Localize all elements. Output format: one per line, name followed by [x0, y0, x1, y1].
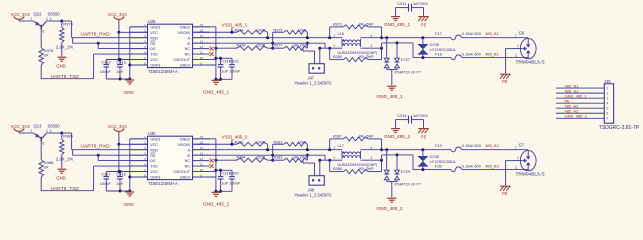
net label 485_B1 — [565, 83, 580, 88]
ground GND_485_2 (TVS) — [377, 198, 403, 211]
capacitor C318 1uF — [116, 170, 125, 191]
svg-text:GND_485_1: GND_485_1 — [384, 22, 410, 27]
svg-text:0R_DNP: 0R_DNP — [359, 23, 374, 27]
power VCC_3V3 (bot2) — [108, 124, 128, 133]
net label 485_A1 — [565, 88, 580, 93]
svg-text:GND_485_2: GND_485_2 — [384, 134, 410, 139]
net label GND_485_2 — [565, 113, 588, 118]
svg-text:VCC_3V3: VCC_3V3 — [11, 12, 31, 17]
svg-text:Header 1_2.54DIP2: Header 1_2.54DIP2 — [295, 80, 333, 85]
svg-text:2: 2 — [30, 129, 32, 133]
svg-text:VCC_3V3: VCC_3V3 — [108, 12, 128, 17]
svg-text:RXD: RXD — [150, 36, 158, 40]
ground GND_485_1 (caps) — [203, 80, 229, 94]
net label 485_B1 — [485, 51, 500, 56]
svg-text:0R_DNP: 0R_DNP — [359, 135, 374, 139]
svg-text:NC: NC — [185, 165, 191, 169]
power VCC_3V3 (top2) — [108, 12, 128, 21]
svg-text:3: 3 — [607, 97, 609, 101]
svg-text:TD501D485H-A: TD501D485H-A — [148, 69, 178, 74]
capacitor C313 1uF — [116, 58, 125, 79]
svg-text:L17: L17 — [338, 144, 344, 148]
capacitor C317 100nF — [100, 171, 112, 191]
no-connect pin 11 — [210, 52, 214, 56]
wire RXD net — [62, 133, 148, 150]
svg-text:0.16A/ 60V: 0.16A/ 60V — [462, 31, 482, 36]
svg-text:GND: GND — [124, 90, 134, 95]
svg-text:PSM712-LF-T7: PSM712-LF-T7 — [395, 70, 422, 75]
svg-text:VISO_485_2: VISO_485_2 — [222, 135, 248, 140]
svg-text:R388: R388 — [333, 167, 342, 171]
svg-text:0R_DNP: 0R_DNP — [294, 43, 309, 47]
capacitor C316 1nF/2KV — [396, 113, 429, 123]
net label PE — [565, 98, 571, 103]
svg-text:GND1: GND1 — [150, 25, 160, 29]
TVS diode D726 bidirectional — [417, 38, 457, 59]
resistor R374 620R — [193, 29, 268, 38]
wire collector — [47, 132, 64, 135]
svg-text:620R: 620R — [257, 155, 266, 159]
svg-text:GND2: GND2 — [180, 64, 190, 68]
svg-text:PSM712-LF-T7: PSM712-LF-T7 — [395, 182, 422, 187]
svg-text:D727: D727 — [401, 57, 410, 62]
svg-text:R387: R387 — [333, 135, 342, 139]
earth PE (cap) — [418, 120, 429, 140]
svg-text:VCC: VCC — [150, 58, 158, 62]
ground GND_485_2 (caps) — [203, 192, 229, 206]
svg-text:1nF/2KV: 1nF/2KV — [413, 113, 429, 118]
svg-text:5: 5 — [607, 107, 609, 111]
svg-text:GND: GND — [56, 64, 66, 69]
svg-text:TD501D485H-A: TD501D485H-A — [148, 181, 178, 186]
svg-text:C312: C312 — [101, 59, 110, 64]
wire J48 pin 1 — [556, 87, 604, 89]
TVS diode D728 bidirectional — [417, 150, 457, 171]
ground GND_485_1 (TVS) — [377, 86, 403, 99]
capacitor C315 100nF — [216, 58, 241, 79]
resistor R383 0R_DNP — [273, 154, 309, 163]
fuse F18 0.16A — [435, 51, 528, 59]
ground GND_485_2 (cap) — [384, 120, 410, 140]
svg-text:PE: PE — [502, 79, 508, 84]
fuse F19 0.16A — [435, 143, 528, 152]
svg-text:GND2: GND2 — [180, 137, 190, 141]
header J49 Header 1_2.54DIP2 — [295, 160, 333, 197]
svg-text:NC: NC — [185, 47, 191, 51]
wire GND2 vertical — [193, 27, 218, 81]
svg-text:RE: RE — [150, 154, 156, 158]
svg-text:2: 2 — [30, 17, 32, 21]
svg-text:0R_DNP: 0R_DNP — [359, 55, 374, 59]
svg-text:GND2: GND2 — [180, 176, 190, 180]
earth PE (cap) — [418, 8, 429, 28]
svg-text:PE: PE — [502, 191, 508, 196]
svg-text:R381: R381 — [274, 141, 283, 145]
svg-text:UART6_TXD: UART6_TXD — [51, 186, 80, 192]
net label VISO_485_1 — [222, 23, 248, 33]
svg-text:NC: NC — [185, 53, 191, 57]
capacitor C312 100nF — [100, 59, 112, 79]
svg-text:2: 2 — [517, 156, 519, 160]
resistor R385 2.2K_1% — [56, 133, 74, 169]
svg-text:TSDGRC-3.81-7P: TSDGRC-3.81-7P — [599, 125, 640, 131]
svg-text:2.2K_1%: 2.2K_1% — [56, 156, 74, 161]
transistor Q13 S8550 — [34, 124, 61, 146]
resistor R379 2.2K_1% — [56, 21, 74, 57]
ground GND (caps) — [124, 80, 135, 95]
svg-text:TRM04BL5-S: TRM04BL5-S — [516, 171, 545, 177]
ground GND — [56, 57, 66, 68]
wire DE net — [98, 43, 147, 48]
svg-text:6: 6 — [607, 112, 609, 116]
svg-text:PE: PE — [421, 23, 427, 28]
svg-text:GND1: GND1 — [150, 137, 160, 141]
wire A to fuse — [361, 36, 452, 39]
svg-text:F19: F19 — [435, 143, 443, 148]
net label 485_A2 — [565, 108, 580, 113]
svg-text:C320: C320 — [229, 170, 239, 175]
ground GND — [56, 169, 66, 180]
wire J48 pin 6 — [556, 112, 604, 114]
svg-text:VISO_485_1: VISO_485_1 — [222, 23, 248, 28]
ground GND_485_1 (cap) — [384, 8, 410, 28]
svg-text:C313: C313 — [116, 59, 125, 64]
wire bias tie — [271, 144, 274, 161]
svg-text:NC: NC — [185, 159, 191, 163]
resistor R373 0R_DNP (bypass top) — [330, 23, 383, 40]
resistor R376 620R — [214, 43, 272, 50]
wire J48 pin 3 — [556, 97, 604, 99]
earth PE (connector) — [500, 186, 511, 196]
svg-text:3: 3 — [371, 44, 373, 48]
svg-text:100nF: 100nF — [100, 69, 112, 74]
svg-text:S8550: S8550 — [48, 12, 61, 17]
svg-text:1uF: 1uF — [221, 181, 228, 186]
svg-text:485_A2: 485_A2 — [485, 143, 500, 148]
resistor R388 0R_DNP (bypass bottom) — [330, 159, 383, 174]
capacitor C314 1uF — [193, 57, 233, 81]
svg-text:UART6_RXD: UART6_RXD — [81, 144, 110, 150]
net label UART6_RXD — [81, 144, 110, 150]
svg-text:0.16A/ 60V: 0.16A/ 60V — [462, 51, 482, 56]
wire J48 pin 4 — [556, 102, 604, 104]
net label VISO_485_2 — [222, 135, 248, 145]
svg-text:S8550: S8550 — [48, 124, 61, 129]
svg-text:1: 1 — [334, 146, 336, 150]
svg-text:GND_485_2: GND_485_2 — [377, 206, 403, 211]
wire A to fuse — [361, 148, 452, 151]
svg-text:C315: C315 — [229, 58, 238, 63]
svg-text:1nF/2KV: 1nF/2KV — [413, 1, 429, 6]
svg-text:L16: L16 — [338, 32, 344, 36]
wire DE net — [98, 155, 147, 160]
svg-text:B: B — [42, 142, 44, 146]
connector G6 TRM04BL5-S — [515, 30, 545, 65]
fuse F17 0.16A — [435, 31, 528, 40]
svg-text:VCC: VCC — [150, 170, 158, 174]
capacitor C320 100nF — [216, 170, 241, 191]
svg-text:1uF: 1uF — [116, 69, 123, 74]
wire B jog — [382, 41, 451, 57]
wire GND1 vertical — [128, 27, 147, 81]
svg-text:D729: D729 — [401, 169, 410, 174]
svg-text:100nF: 100nF — [229, 181, 241, 186]
svg-text:3: 3 — [371, 156, 373, 160]
svg-text:120R: 120R — [298, 29, 307, 33]
net label UART8_TXD — [51, 74, 80, 80]
svg-text:100nF: 100nF — [229, 69, 241, 74]
header J47 Header 1_2.54DIP2 — [295, 48, 333, 85]
wire VCC vertical — [117, 20, 147, 61]
svg-text:R383: R383 — [274, 155, 283, 159]
wire VCC rail — [106, 171, 147, 173]
wire caps ground rail — [106, 190, 130, 193]
svg-text:2: 2 — [517, 44, 519, 48]
svg-text:GND2: GND2 — [180, 25, 190, 29]
wire RE net — [73, 150, 148, 157]
no-connect pin 12 — [210, 159, 214, 163]
svg-text:VCC_3V3: VCC_3V3 — [11, 124, 31, 129]
net label 485_B2 — [565, 103, 580, 108]
svg-text:R376: R376 — [237, 43, 246, 47]
no-connect pin 12 — [210, 47, 214, 51]
wire TXD net — [41, 54, 147, 79]
wire J48 pin 7 — [556, 117, 604, 119]
svg-text:RXD: RXD — [150, 148, 158, 152]
svg-text:R380: R380 — [333, 55, 342, 59]
wire J48 pin 2 — [556, 92, 604, 94]
earth PE (connector) — [500, 74, 511, 84]
svg-text:1: 1 — [515, 146, 517, 150]
svg-text:2K: 2K — [44, 53, 49, 58]
svg-text:RE: RE — [150, 42, 156, 46]
svg-text:VISOIN: VISOIN — [178, 31, 191, 35]
resistor R387 0R_DNP (bypass top) — [330, 135, 383, 152]
svg-text:B: B — [42, 30, 44, 34]
wire VCC rail — [106, 59, 147, 61]
svg-text:DE: DE — [150, 159, 156, 163]
inductor L17 common-mode choke — [330, 144, 382, 167]
resistor R377 0R_DNP — [273, 42, 309, 51]
svg-text:VISOOUT: VISOOUT — [173, 58, 190, 62]
svg-text:VISOIN: VISOIN — [178, 143, 191, 147]
svg-text:12: 12 — [200, 157, 204, 161]
wire B jog — [382, 153, 451, 169]
inductor L16 common-mode choke — [330, 32, 382, 55]
wire GND1 vertical — [128, 139, 147, 193]
resistor R375 120R — [273, 29, 308, 38]
svg-text:Header 1_2.54DIP2: Header 1_2.54DIP2 — [295, 192, 333, 197]
svg-text:UART8_TXD: UART8_TXD — [51, 74, 80, 80]
wire emitter — [19, 129, 34, 133]
wire emitter — [19, 17, 34, 21]
svg-text:F18: F18 — [435, 51, 443, 56]
svg-text:VCC: VCC — [150, 31, 158, 35]
svg-text:LY12SDC05UL: LY12SDC05UL — [430, 159, 457, 164]
svg-text:PE: PE — [421, 135, 427, 140]
net label 485_A1 — [485, 31, 500, 36]
svg-text:GND: GND — [56, 176, 66, 181]
resistor R380 0R_DNP (bypass bottom) — [330, 47, 383, 62]
svg-text:12: 12 — [200, 45, 204, 49]
resistor R382 620R — [193, 141, 268, 150]
wire PE pin2 — [506, 49, 521, 74]
wire collector — [47, 20, 64, 23]
svg-text:LY12SDC05UL: LY12SDC05UL — [430, 47, 457, 52]
net label 485_B2 — [485, 163, 500, 168]
svg-text:0.16A/ 60V: 0.16A/ 60V — [462, 143, 482, 148]
svg-text:R374: R374 — [235, 29, 244, 33]
svg-text:4: 4 — [607, 102, 609, 106]
capacitor C319 1uF — [193, 169, 233, 193]
svg-text:GND1: GND1 — [150, 176, 160, 180]
svg-text:TXD: TXD — [150, 53, 158, 57]
svg-text:GND1: GND1 — [150, 64, 160, 68]
capacitor C311 1nF/2KV — [396, 1, 429, 11]
wire RXD net — [62, 21, 148, 38]
wire RE net — [73, 38, 148, 45]
svg-text:J48: J48 — [604, 79, 611, 84]
svg-text:11: 11 — [200, 50, 203, 54]
svg-text:GND_485_2: GND_485_2 — [203, 202, 229, 207]
svg-text:R375: R375 — [274, 29, 283, 33]
svg-text:1: 1 — [334, 34, 336, 38]
wire B line — [193, 155, 332, 162]
resistor R381 120R — [273, 141, 308, 150]
svg-text:VCC: VCC — [150, 143, 158, 147]
svg-text:485_A1: 485_A1 — [485, 31, 500, 36]
svg-text:0.16A/ 60V: 0.16A/ 60V — [462, 163, 482, 168]
svg-text:GND_485_2: GND_485_2 — [565, 113, 588, 118]
TVS array D729 PSM712 — [384, 150, 421, 197]
svg-text:R382: R382 — [235, 141, 244, 145]
svg-text:U30: U30 — [148, 131, 156, 136]
svg-text:3: 3 — [515, 166, 517, 170]
wire GND2 vertical — [193, 139, 218, 193]
svg-text:UART8_RXD: UART8_RXD — [81, 32, 110, 38]
svg-text:485_B1: 485_B1 — [485, 51, 500, 56]
svg-text:C316: C316 — [397, 113, 406, 118]
wire J48 pin 5 — [556, 107, 604, 109]
net label 485_A2 — [485, 143, 500, 148]
svg-text:Q13: Q13 — [34, 124, 43, 129]
svg-text:620R: 620R — [257, 43, 266, 47]
svg-text:7: 7 — [607, 117, 609, 121]
svg-text:2K: 2K — [44, 165, 49, 170]
svg-text:620R: 620R — [257, 29, 266, 33]
wire bias tie — [271, 32, 274, 49]
svg-text:R384: R384 — [237, 155, 246, 159]
ground GND (caps) — [124, 192, 135, 207]
resistor R386 2K — [39, 160, 54, 178]
wire TXD net — [41, 166, 147, 191]
svg-text:C317: C317 — [101, 171, 110, 176]
svg-text:2: 2 — [334, 156, 336, 160]
svg-text:F20: F20 — [435, 163, 443, 168]
svg-text:0R_DNP: 0R_DNP — [294, 155, 309, 159]
wire VCC vertical — [117, 132, 147, 173]
svg-text:C311: C311 — [397, 1, 406, 6]
svg-text:R373: R373 — [333, 23, 342, 27]
IC U30 TD501D485H-A isolated RS-485 transceiver — [130, 131, 209, 186]
fuse F20 0.16A — [435, 163, 528, 171]
svg-text:0R_DNP: 0R_DNP — [359, 167, 374, 171]
svg-text:GND_485_1: GND_485_1 — [203, 90, 229, 95]
svg-text:3: 3 — [515, 54, 517, 58]
wire B line — [193, 43, 332, 50]
wire caps ground rail — [106, 78, 130, 81]
wire PE pin2 — [506, 161, 521, 186]
resistor R384 620R — [214, 155, 272, 162]
wire A line — [193, 148, 343, 151]
TVS array D727 PSM712 — [384, 38, 421, 85]
IC U29 TD501D485H-A isolated RS-485 transceiver — [130, 19, 209, 74]
net label UART6_TXD — [51, 186, 80, 192]
svg-text:120R: 120R — [298, 141, 307, 145]
power VCC_3V3 (top) — [11, 12, 31, 21]
svg-text:TXD: TXD — [150, 165, 158, 169]
svg-text:11: 11 — [200, 162, 203, 166]
connector J48 TSDGRC-3.81-7P — [599, 79, 640, 131]
svg-text:2: 2 — [607, 92, 609, 96]
resistor R378 2K — [39, 48, 54, 66]
svg-text:1: 1 — [607, 87, 609, 91]
wire base lead — [40, 142, 42, 160]
svg-text:Q12: Q12 — [34, 12, 43, 17]
svg-text:2.2K_1%: 2.2K_1% — [56, 44, 74, 49]
svg-text:GND_485_1: GND_485_1 — [377, 94, 403, 99]
svg-text:VISOOUT: VISOOUT — [173, 170, 190, 174]
svg-text:G6: G6 — [519, 30, 525, 35]
svg-text:TRM04BL5-S: TRM04BL5-S — [516, 59, 545, 65]
svg-text:DE: DE — [150, 47, 156, 51]
wire base lead — [40, 30, 42, 48]
svg-text:G7: G7 — [519, 142, 525, 147]
svg-text:100nF: 100nF — [100, 181, 112, 186]
net label UART8_RXD — [81, 32, 110, 38]
svg-text:U29: U29 — [148, 19, 156, 24]
connector G7 TRM04BL5-S — [515, 142, 545, 177]
power VCC_3V3 (bot) — [11, 124, 31, 133]
svg-text:VCC_3V3: VCC_3V3 — [108, 124, 128, 129]
svg-text:2: 2 — [334, 44, 336, 48]
svg-text:F17: F17 — [435, 31, 443, 36]
svg-text:1uF: 1uF — [116, 181, 123, 186]
svg-text:GND: GND — [124, 202, 134, 207]
svg-text:C318: C318 — [116, 171, 125, 176]
svg-text:R377: R377 — [274, 43, 283, 47]
wire A line — [193, 36, 343, 39]
transistor Q12 S8550 — [34, 12, 61, 34]
svg-text:1uF: 1uF — [221, 69, 228, 74]
no-connect pin 11 — [210, 164, 214, 168]
net label GND_485_1 — [565, 93, 588, 98]
svg-text:485_B2: 485_B2 — [485, 163, 500, 168]
svg-text:1: 1 — [515, 34, 517, 38]
svg-text:620R: 620R — [257, 141, 266, 145]
